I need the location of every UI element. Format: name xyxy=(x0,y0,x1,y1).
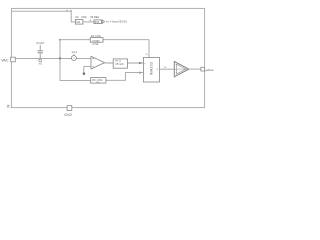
junction node dot xyxy=(59,57,61,59)
svg-text:INA333: INA333 xyxy=(149,62,153,75)
svg-text:U5 REG: U5 REG xyxy=(90,16,99,19)
wire vertical branch xyxy=(59,40,61,81)
svg-text:GN: GN xyxy=(76,21,80,24)
svg-text:GN2: GN2 xyxy=(64,113,72,117)
resistor R6 bottom box xyxy=(91,78,106,84)
wire ground stub xyxy=(83,66,85,72)
wire input net xyxy=(15,57,91,59)
pin arrowhead lower xyxy=(139,72,142,74)
wire bottom branch xyxy=(60,80,91,82)
wire op-amp output xyxy=(105,62,144,64)
svg-text:VG1: VG1 xyxy=(72,51,78,54)
port output square xyxy=(201,67,205,71)
svg-text:V+: V+ xyxy=(146,54,149,56)
svg-text:4.7uF: 4.7uF xyxy=(92,43,99,46)
source VG1 xyxy=(73,54,75,56)
svg-text:5V0: 5V0 xyxy=(95,21,100,24)
wire lower input xyxy=(84,65,91,67)
meter m1 below wire xyxy=(39,59,42,62)
port VAC square xyxy=(11,57,16,62)
svg-text:range: range xyxy=(92,39,100,42)
wire final output xyxy=(189,68,201,70)
output port symbol xyxy=(102,20,104,23)
svg-text:In +Vout(5V0): In +Vout(5V0) xyxy=(106,20,127,24)
svg-text:VAC: VAC xyxy=(1,58,9,62)
node ticks on top rail xyxy=(66,10,69,12)
node tick xyxy=(89,20,92,22)
capacitor C1 box xyxy=(75,20,83,25)
wire top supply rail xyxy=(11,11,75,22)
regulator U5 box xyxy=(94,20,101,24)
svg-text:goNo2: goNo2 xyxy=(205,68,214,72)
wire chain segment xyxy=(83,21,94,23)
op-amp U1 xyxy=(91,56,105,69)
filter box R5 xyxy=(113,59,127,68)
svg-text:C5 1n0: C5 1n0 xyxy=(115,62,124,66)
node corner dot xyxy=(59,39,61,41)
svg-text:Vin: Vin xyxy=(75,16,79,19)
inner triangle of buffer xyxy=(177,64,186,74)
svg-text:m1: m1 xyxy=(39,64,43,66)
IC U6 box xyxy=(143,57,159,82)
op-amp U7 buffer xyxy=(174,62,189,77)
svg-text:C2 4u7: C2 4u7 xyxy=(36,42,45,45)
wire feedback rail xyxy=(60,39,149,41)
wire U6 top pin xyxy=(148,40,150,58)
capacitor C2 xyxy=(39,45,41,50)
wire U6 output xyxy=(159,68,174,70)
ground dot xyxy=(83,72,86,75)
resistor R2 box xyxy=(90,38,103,43)
pin arrowhead upper xyxy=(139,62,142,64)
corner ticks xyxy=(7,104,9,107)
port GN2 square xyxy=(67,106,72,111)
wire from bottom box to U6 xyxy=(106,73,143,81)
svg-text:100n: 100n xyxy=(81,16,87,19)
border frame wire loop xyxy=(11,8,204,107)
